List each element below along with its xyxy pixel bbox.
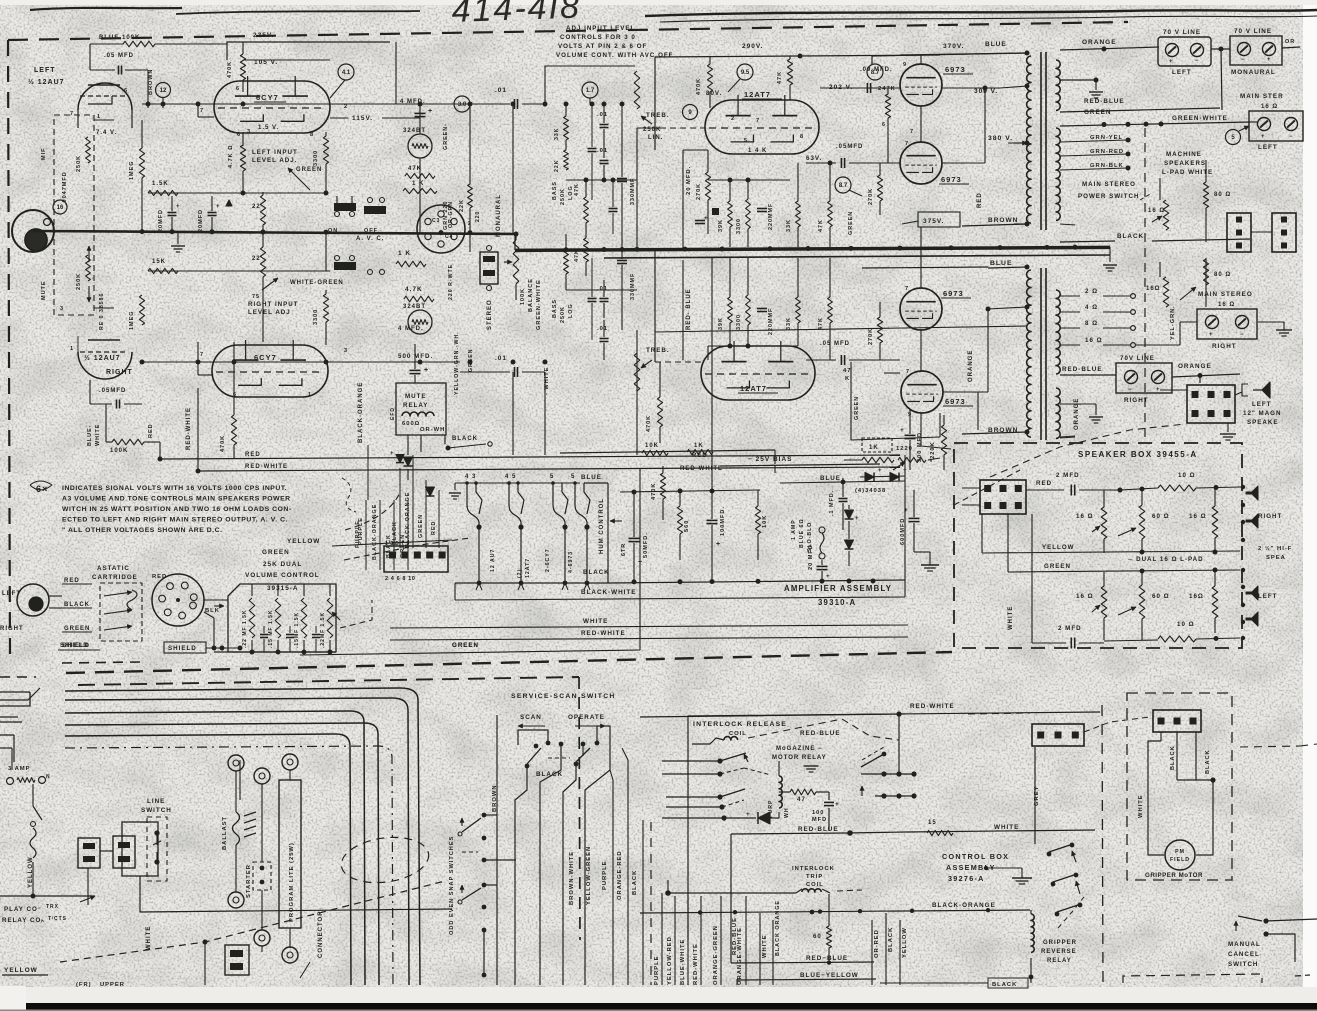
svg-text:GREEN: GREEN	[854, 396, 860, 420]
svg-text:3300: 3300	[736, 314, 742, 330]
wire x445 column	[444, 104, 446, 166]
svg-text:RED-WHITE: RED-WHITE	[581, 630, 626, 637]
svg-text:BLACK: BLACK	[992, 982, 1017, 988]
left edge cut circuit stubs	[0, 691, 30, 693]
svg-text:MONAURAL: MONAURAL	[1231, 69, 1276, 76]
svg-text:250K: 250K	[560, 306, 566, 323]
tube V1B half 12AU7 lower	[78, 352, 132, 379]
svg-text:BLACK-WHITE: BLACK-WHITE	[581, 589, 636, 596]
wire diode row	[724, 817, 756, 819]
svg-text:12AT7: 12AT7	[744, 90, 771, 99]
svg-text:ASTATIC: ASTATIC	[97, 565, 130, 572]
svg-text:RED-BLUE: RED-BLUE	[800, 730, 841, 737]
svg-text:C4: C4	[445, 234, 453, 240]
svg-text:2: 2	[731, 116, 735, 122]
program lite tube	[279, 780, 301, 928]
svg-text:LOG: LOG	[568, 303, 574, 318]
svg-text:PM: PM	[1175, 849, 1185, 855]
misc verticals right of scan	[759, 913, 761, 985]
svg-text:16 Ω: 16 Ω	[1148, 208, 1165, 214]
svg-text:7: 7	[756, 118, 760, 124]
svg-text:16 Ω: 16 Ω	[1218, 302, 1235, 308]
wire tube1 right to 115V	[330, 117, 348, 119]
svg-text:BROWN-WHITE: BROWN-WHITE	[569, 851, 575, 905]
svg-text:+: +	[1169, 59, 1174, 65]
svg-text:247K: 247K	[878, 86, 896, 92]
svg-text:SWITCH: SWITCH	[1228, 961, 1258, 968]
svg-text:WH: WH	[784, 807, 790, 818]
snap switch dash	[462, 851, 478, 853]
svg-text:RIGHT INPUT: RIGHT INPUT	[248, 301, 299, 308]
svg-text:RED-BLUE: RED-BLUE	[1062, 366, 1103, 373]
svg-text:.15 MF 1.5K: .15 MF 1.5K	[268, 609, 274, 648]
arrow marks heater	[476, 583, 482, 590]
frame wire L4	[65, 723, 379, 985]
svg-text:+: +	[900, 427, 905, 434]
svg-text:TᴵCTS: TᴵCTS	[48, 916, 67, 922]
svg-text:47: 47	[797, 796, 806, 803]
svg-text:47K: 47K	[574, 183, 580, 196]
svg-text:MFD: MFD	[812, 817, 827, 823]
dashed link gripper	[1058, 897, 1084, 928]
wire plug link	[100, 850, 113, 852]
svg-text:270K: 270K	[696, 183, 702, 200]
svg-text:20 MFD: 20 MFD	[808, 544, 814, 570]
control box outer border	[688, 712, 1100, 940]
dashed line to amp plug	[340, 600, 372, 628]
relay contact feed wires	[662, 760, 718, 762]
svg-text:RED-WHITE: RED-WHITE	[910, 703, 955, 710]
svg-text:375V.: 375V.	[923, 218, 944, 225]
svg-text:2 Ω: 2 Ω	[1085, 288, 1098, 295]
switch pair right2	[1053, 875, 1074, 882]
svg-text:.05MFD: .05MFD	[836, 144, 863, 150]
svg-text:GREEN-WHITE: GREEN-WHITE	[536, 279, 542, 330]
svg-text:8.7: 8.7	[871, 70, 880, 76]
junction dots grid row 104	[146, 102, 151, 107]
svg-text:47: 47	[843, 368, 851, 374]
tube V8 6973 lower2	[901, 371, 943, 413]
svg-text:BLACK: BLACK	[1170, 745, 1176, 770]
svg-text:VOLUME CONTROL: VOLUME CONTROL	[245, 572, 320, 579]
svg-text:BLACK: BLACK	[64, 602, 90, 608]
wire long to bus	[1060, 247, 1110, 248]
vertical wire x899	[898, 714, 900, 775]
wire 6973 to transformer top	[940, 84, 1000, 86]
svg-text:INTERLOCK RELEASE: INTERLOCK RELEASE	[693, 721, 787, 728]
tweeter terminals right lower	[1241, 568, 1245, 572]
svg-text:MACHINE: MACHINE	[1166, 151, 1202, 158]
svg-text:4 Ω: 4 Ω	[1085, 304, 1098, 311]
svg-text:5: 5	[571, 474, 575, 480]
svg-text:100K: 100K	[520, 288, 526, 305]
gripper reverse coil	[1031, 914, 1034, 952]
volume pots	[249, 598, 255, 638]
wire plate top right	[330, 80, 346, 98]
svg-text:10 Ω: 10 Ω	[1178, 472, 1196, 479]
label 375V	[918, 212, 960, 227]
wire connector stubs	[962, 487, 980, 489]
wire row 280 lower tone	[566, 289, 637, 291]
svg-text:GREEN-WHITE: GREEN-WHITE	[1172, 115, 1228, 122]
svg-text:220MMF: 220MMF	[768, 203, 774, 230]
svg-text:BROWN: BROWN	[492, 784, 498, 812]
hum control box side	[607, 483, 609, 583]
wire vert x140	[141, 120, 143, 148]
tweeter speaker icon lower	[1246, 586, 1258, 600]
svg-text:RED-BLUE: RED-BLUE	[798, 826, 839, 833]
paper margins	[1303, 0, 1317, 1011]
right dots row2	[881, 793, 886, 798]
svg-text:GRIPPER: GRIPPER	[1043, 940, 1077, 946]
capacitor extra upper2	[609, 208, 618, 210]
bottom right dashed box	[1123, 974, 1262, 983]
svg-text:RED: RED	[64, 578, 80, 584]
ground heater	[454, 483, 456, 490]
wire yel-grn to right box	[1180, 321, 1197, 323]
wiper arrows volume	[332, 612, 340, 620]
tube V3 12AT7 upper	[705, 100, 819, 154]
svg-text:15: 15	[928, 820, 937, 826]
svg-text:25K DUAL: 25K DUAL	[263, 561, 302, 568]
svg-text:YELLOW: YELLOW	[4, 967, 38, 974]
wire right columns x905	[904, 455, 906, 597]
svg-text:2 MFD: 2 MFD	[1056, 472, 1080, 479]
top rule mid	[176, 11, 420, 14]
transformer T1 core	[1040, 52, 1042, 230]
svg-text:39K: 39K	[718, 219, 724, 232]
wire socket right stubs	[466, 228, 470, 230]
svg-text:6: 6	[236, 86, 240, 92]
pin circle 9.5	[737, 64, 753, 80]
svg-text:LEFT: LEFT	[1252, 401, 1271, 408]
wire yellow down	[32, 862, 34, 896]
svg-text:9: 9	[903, 62, 907, 68]
wire mid horizontal y362 extension	[396, 361, 460, 363]
arrow contact	[744, 754, 748, 762]
svg-text:RED: RED	[152, 574, 167, 580]
wire socket shield stub	[204, 612, 214, 618]
svg-text:290V.: 290V.	[742, 43, 763, 50]
wire down from plug	[87, 868, 89, 896]
svg-text:BLACK: BLACK	[583, 569, 610, 576]
svg-text:39K: 39K	[718, 317, 724, 330]
svg-text:BALLAST: BALLAST	[222, 816, 228, 850]
svg-text:BLUE: BLUE	[820, 475, 841, 482]
wire T1 secondary bottom	[1060, 224, 1075, 225]
svg-text:4 5: 4 5	[505, 474, 516, 480]
line switch dashed box	[147, 817, 167, 881]
svg-text:+: +	[826, 573, 831, 580]
wire lower 6973 links	[870, 359, 900, 361]
resistor 100K	[89, 404, 91, 442]
svg-text:8 Ω: 8 Ω	[1085, 320, 1098, 327]
svg-text:1.5 V.: 1.5 V.	[258, 125, 279, 131]
svg-text:MAIN STEREO: MAIN STEREO	[1082, 181, 1136, 188]
wire screen taps	[920, 55, 922, 64]
resistor 80ohm upper	[1203, 182, 1208, 208]
wire top mid runs	[395, 42, 397, 104]
amplifier assembly dashed border top	[8, 22, 1128, 40]
svg-text:270K: 270K	[868, 328, 874, 345]
svg-text:5: 5	[550, 474, 554, 480]
svg-text:COIL: COIL	[729, 731, 747, 737]
svg-text:MONAURAL: MONAURAL	[496, 194, 502, 237]
socket 7pin cartridge	[152, 574, 204, 626]
starter dashed box	[253, 862, 271, 890]
svg-text:60 Ω: 60 Ω	[1152, 593, 1170, 600]
svg-text:6CY7: 6CY7	[254, 353, 277, 362]
svg-text:MOTOR RELAY: MOTOR RELAY	[772, 755, 827, 761]
tube V1A half 12AU7	[78, 83, 132, 110]
svg-text:MIF: MIF	[41, 148, 47, 160]
svg-text:RED: RED	[245, 452, 261, 458]
volume caps symbols	[260, 634, 268, 636]
svg-text:BLACK: BLACK	[452, 436, 478, 442]
svg-text:1MEG: 1MEG	[129, 160, 135, 180]
svg-text:YELLOW-GRN.-WH.: YELLOW-GRN.-WH.	[454, 331, 460, 395]
svg-text:470K: 470K	[646, 415, 652, 432]
PM FIELD motor	[1165, 840, 1195, 870]
wire program lite bottom	[262, 946, 290, 952]
wire orange drop right	[977, 392, 979, 430]
svg-text:SPEA: SPEA	[1266, 555, 1286, 561]
bottom bus volume	[214, 651, 336, 653]
dashed vertical x651	[650, 822, 652, 985]
wire row 180 upper tone	[566, 179, 637, 181]
wire 6973 screens	[880, 84, 900, 86]
svg-text:324BT: 324BT	[403, 128, 426, 134]
svg-text:TRX: TRX	[46, 904, 59, 910]
svg-text:16Ω: 16Ω	[1146, 286, 1160, 292]
svg-text:.22MF 1.5K: .22MF 1.5K	[320, 612, 326, 648]
trip coil	[802, 889, 821, 892]
svg-text:ADJ INPUT LEVEL: ADJ INPUT LEVEL	[566, 25, 635, 32]
svg-text:22: 22	[252, 204, 261, 210]
wire tube1 grid	[147, 70, 149, 108]
svg-text:GREEN: GREEN	[452, 642, 479, 649]
svg-text:WHITE: WHITE	[583, 618, 608, 625]
svg-text:SPEAKER BOX 39455-A: SPEAKER BOX 39455-A	[1078, 450, 1198, 459]
svg-text:+: +	[428, 108, 433, 115]
svg-text:RED- BLUE: RED- BLUE	[686, 288, 692, 330]
svg-text:ORANGE: ORANGE	[1178, 363, 1212, 370]
svg-text:1: 1	[70, 346, 74, 352]
svg-text:3300: 3300	[736, 218, 742, 234]
svg-text:SHIELD: SHIELD	[168, 645, 197, 652]
svg-text:VOLTS AT PIN 2 & 6 OF: VOLTS AT PIN 2 & 6 OF	[558, 43, 647, 50]
frame wire L3	[65, 711, 365, 985]
wire 16ohm taps to YEL-GRN	[1136, 344, 1180, 346]
dashed vertical separator	[1102, 705, 1103, 985]
wire yellow run	[332, 540, 452, 546]
svg-text:CANCEL: CANCEL	[1228, 951, 1260, 958]
svg-text:" ALL OTHER VOLTAGES SHOWN ARE: " ALL OTHER VOLTAGES SHOWN ARE D.C.	[62, 527, 223, 534]
pin circle 9	[683, 105, 698, 120]
bus thicken	[515, 249, 1110, 252]
svg-text:39315-A: 39315-A	[267, 585, 299, 592]
wire input bus left	[33, 231, 515, 234]
connector 3pin B	[1272, 213, 1296, 252]
scan wires vertical	[496, 715, 498, 985]
svg-text:BLACK-ORANGE: BLACK-ORANGE	[358, 382, 364, 443]
svg-text:BLACK-ORANGE: BLACK-ORANGE	[932, 902, 996, 909]
svg-text:WHITE: WHITE	[994, 824, 1019, 831]
svg-text:GRN 220: GRN 220	[443, 201, 449, 230]
svg-text:MAIN STER: MAIN STER	[1240, 93, 1284, 100]
svg-text:BROWN: BROWN	[148, 69, 154, 95]
amplifier dashed border left	[8, 40, 10, 660]
svg-text:CONTROL BOX: CONTROL BOX	[942, 852, 1009, 861]
heater bottom bus	[455, 582, 610, 584]
line switch contacts	[154, 830, 159, 835]
amp plug P1	[384, 546, 448, 572]
svg-text:GREEN: GREEN	[418, 514, 424, 538]
svg-text:BALANCE: BALANCE	[528, 278, 534, 312]
svg-text:RIGHT: RIGHT	[1258, 513, 1282, 520]
svg-text:63V.: 63V.	[806, 155, 822, 162]
svg-text:ORANGE: ORANGE	[1082, 39, 1117, 46]
wire lower tone mirror v1	[588, 298, 597, 300]
svg-text:ASSEMBLY: ASSEMBLY	[946, 863, 996, 872]
svg-text:3 AMP: 3 AMP	[8, 766, 31, 772]
svg-text:BLACK-ORANGE: BLACK-ORANGE	[372, 504, 378, 560]
svg-text:BLACK: BLACK	[392, 521, 398, 545]
svg-text:BLACK: BLACK	[632, 870, 638, 895]
control left verticals	[661, 896, 663, 985]
svg-text:6: 6	[124, 88, 128, 94]
svg-text:SCAN: SCAN	[520, 714, 542, 721]
bottom scan bar	[26, 1003, 1317, 1010]
wire thermistor col join	[419, 193, 421, 234]
svg-text:80 Ω: 80 Ω	[1214, 192, 1231, 198]
gripper motor dashed box	[1127, 693, 1232, 880]
switch AVC lower pair	[334, 262, 356, 270]
terminal 70V LINE RIGHT	[1116, 363, 1172, 393]
svg-text:16 Ω: 16 Ω	[1085, 337, 1103, 344]
amplifier dashed border bottom	[66, 652, 952, 673]
speaker box dashed border	[954, 443, 1242, 648]
svg-text:GREEN: GREEN	[64, 626, 90, 632]
svg-text:.05 MFD: .05 MFD	[104, 53, 134, 59]
svg-text:7: 7	[200, 352, 204, 358]
wire treble down	[636, 109, 638, 122]
tweeter speaker icon upper	[1246, 486, 1258, 500]
svg-text:1.7: 1.7	[586, 88, 595, 94]
svg-text:20MFD: 20MFD	[158, 209, 164, 232]
svg-text:RED: RED	[431, 521, 437, 535]
left dashed border bottom section	[0, 676, 36, 678]
svg-text:SWITCH: SWITCH	[141, 807, 172, 814]
bottom section dashed border left vertical	[579, 677, 580, 940]
svg-text:6973: 6973	[945, 397, 966, 406]
svg-text:3: 3	[344, 348, 348, 354]
svg-text:WHITE: WHITE	[1138, 794, 1144, 818]
svg-text:6973: 6973	[941, 175, 962, 184]
balance pot 100K	[513, 240, 519, 284]
wire cathode row upper	[708, 179, 790, 181]
wire x513 lower	[512, 372, 514, 455]
svg-text:ODD EVEN SNAP SWITCHES: ODD EVEN SNAP SWITCHES	[449, 836, 455, 935]
wire white drop	[140, 876, 452, 912]
svg-text:GREEN: GREEN	[262, 549, 290, 556]
wire green run	[300, 551, 452, 557]
svg-text:RED-WHITE: RED-WHITE	[693, 943, 699, 985]
svg-text:12: 12	[160, 88, 167, 94]
switch AVC OFF	[368, 198, 373, 203]
junction dots row 362b	[418, 360, 423, 365]
svg-text:RED-WHITE: RED-WHITE	[680, 466, 723, 472]
svg-text:GREEN: GREEN	[1084, 109, 1111, 116]
svg-text:LEFT: LEFT	[34, 67, 56, 74]
svg-text:WHITE: WHITE	[95, 424, 101, 446]
svg-text:6TR: 6TR	[621, 543, 627, 556]
svg-text:6973: 6973	[943, 289, 964, 298]
triangle marker	[226, 200, 232, 206]
svg-text:+: +	[704, 215, 709, 222]
svg-text:RED-WHITE: RED-WHITE	[186, 407, 192, 450]
svg-text:.05 MFD: .05 MFD	[820, 341, 850, 347]
svg-text:INTERLOCK: INTERLOCK	[792, 866, 835, 872]
svg-text:OR-RED: OR-RED	[874, 929, 880, 958]
svg-text:BLACK: BLACK	[536, 771, 563, 778]
svg-text:80 Ω: 80 Ω	[1214, 272, 1231, 278]
svg-text:YELLOW: YELLOW	[287, 538, 320, 545]
ground bus main	[515, 247, 1110, 250]
svg-text:LEFT INPUT: LEFT INPUT	[252, 149, 298, 156]
svg-text:.01: .01	[597, 326, 608, 332]
svg-text:115V.: 115V.	[352, 115, 373, 122]
wire top caps row	[620, 490, 760, 492]
svg-text:220MMF: 220MMF	[768, 308, 774, 335]
svg-text:GREEN: GREEN	[296, 167, 322, 173]
ground control box	[1012, 877, 1032, 879]
tube V2B 6CY7 lower	[212, 345, 328, 397]
svg-text:+: +	[1209, 332, 1214, 338]
svg-text:RIGHT: RIGHT	[1212, 343, 1237, 350]
svg-text:WITCH IN 25 WATT POSITION AND: WITCH IN 25 WATT POSITION AND TWO 16 OHM…	[62, 506, 292, 513]
svg-text:BLUE: BLUE	[990, 260, 1013, 267]
wire 12AT7 lower cathode row	[708, 345, 798, 347]
frame wire L1	[65, 688, 420, 985]
svg-text:50MFD.: 50MFD.	[643, 532, 649, 558]
transformer T2 primary winding	[1027, 270, 1031, 437]
volume control outline	[228, 584, 336, 652]
wire bias row	[560, 450, 775, 453]
svg-text:MANUAL: MANUAL	[1228, 941, 1261, 948]
svg-text:470K: 470K	[696, 78, 702, 95]
svg-text:330MMF: 330MMF	[630, 273, 636, 300]
svg-text:324BT: 324BT	[403, 304, 426, 310]
svg-text:SPEAKERS: SPEAKERS	[1164, 160, 1206, 167]
svg-text:ORANGE-RED: ORANGE-RED	[617, 850, 623, 900]
arrow up-down stereo	[88, 246, 90, 262]
pin circle 1.7	[582, 82, 598, 98]
wire bundle joins	[365, 500, 367, 548]
wire lower plate rail	[654, 250, 656, 362]
svg-text:33K: 33K	[786, 219, 792, 232]
wire feedback row y332	[655, 326, 1027, 332]
svg-text:SERVICE-SCAN SWITCH: SERVICE-SCAN SWITCH	[511, 693, 616, 700]
capacitor .02 extra upper	[588, 148, 597, 150]
svg-text:75: 75	[252, 294, 260, 300]
cartridge arrows	[104, 592, 132, 596]
svg-text:3300: 3300	[313, 309, 319, 325]
svg-text:5: 5	[744, 138, 748, 144]
svg-text:15K: 15K	[152, 259, 166, 265]
svg-text:3: 3	[247, 129, 251, 135]
relay coil	[402, 412, 434, 416]
